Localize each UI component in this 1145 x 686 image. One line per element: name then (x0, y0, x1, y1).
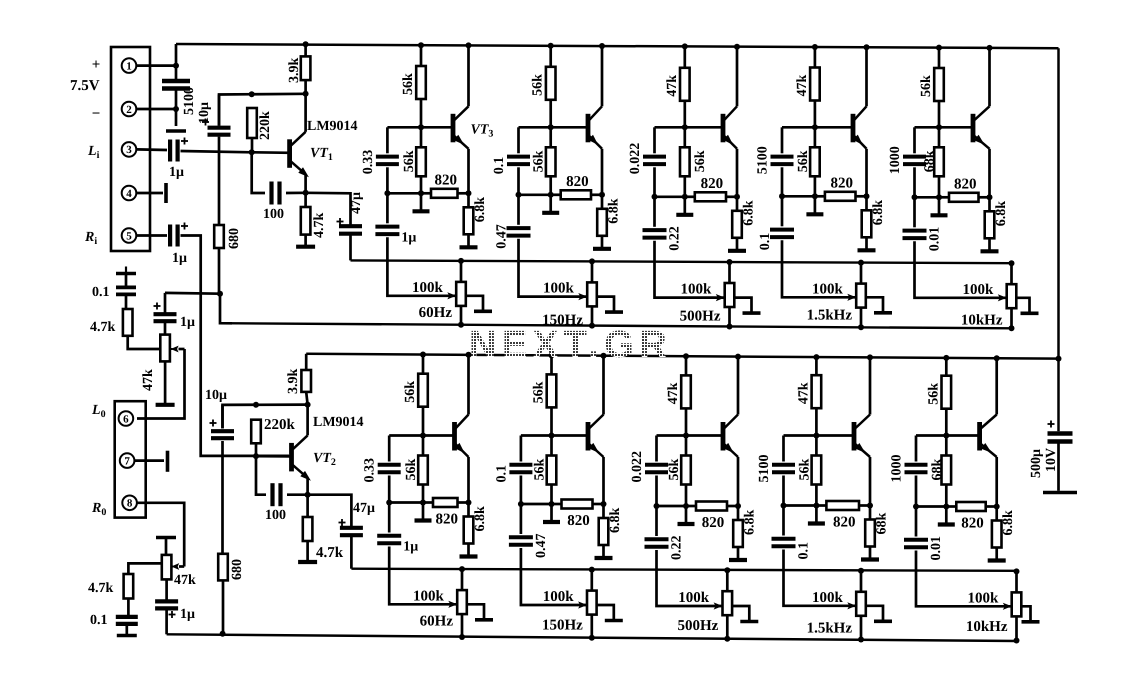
junction cap node 1.5kHz band (bottom) (781, 503, 787, 509)
svg-text:6.8k: 6.8k (473, 506, 488, 532)
wire 56k to junction 500Hz band (top) (683, 176, 686, 197)
label 100k 150Hz band (top) (543, 281, 575, 297)
svg-text:820: 820 (833, 515, 856, 531)
label 0.47 (495, 224, 510, 249)
wire 47k wiper down to terminal6 (137, 349, 185, 419)
junction ground node 1.5kHz band (top) (812, 193, 818, 199)
label 56k lower (404, 459, 419, 481)
ground 47k pot (156, 361, 175, 404)
wire junction to 820 1.5kHz band (top) (815, 195, 825, 198)
wire T to 0.1 (125, 274, 128, 288)
ground 6.8k 10kHz band (bottom) (988, 548, 1006, 561)
potentiometer 100k 10kHz band (bottom) (1012, 592, 1022, 616)
transistor 10kHz band (top) (973, 106, 990, 149)
junction ground node 500Hz band (bottom) (683, 503, 689, 509)
wire base node to 56k 150Hz band (top) (549, 127, 552, 147)
resistor 820 1.5kHz band (bottom) (826, 501, 859, 510)
base node wire 10kHz band (bottom) (916, 434, 980, 437)
wire rail to 56k upper 60Hz band (bottom) (422, 355, 425, 374)
wire base node to 56k 1.5kHz band (bottom) (815, 436, 818, 456)
wire rail to 56k upper 60Hz band (top) (420, 45, 423, 66)
svg-text:47k: 47k (665, 75, 680, 97)
plus mark (181, 223, 188, 230)
svg-text:0.47: 0.47 (534, 534, 549, 559)
label 56k lower (532, 150, 547, 172)
wiper ground 10kHz band (bottom) (1021, 606, 1039, 622)
wire emitter to junction 10kHz band (bottom) (995, 457, 998, 507)
wire base to 100 cap (252, 152, 265, 193)
wire 10u top to collector node (bottom) (223, 405, 308, 429)
resistor 3.9k (bottom) (301, 370, 311, 392)
wire cap 5100 to junction 1.5kHz band (top) (781, 167, 784, 196)
wire emitter to junction 1.5kHz band (top) (865, 149, 868, 197)
resistor 56k upper 60Hz band (bottom) (418, 374, 428, 407)
junction base node 60Hz band (bottom) (420, 433, 426, 439)
bus2 bottom (167, 634, 1017, 641)
capacitor 0.1 (bottom left) (116, 617, 138, 624)
resistor 820 150Hz band (bottom) (562, 500, 593, 509)
base node VT1 junction (249, 149, 255, 155)
label 56k lower (693, 150, 708, 172)
terminal 8 (122, 496, 137, 511)
svg-text:150Hz: 150Hz (542, 617, 583, 633)
label 100k 1.5kHz band (top) (812, 281, 844, 297)
wire node C down to bus2 (220, 294, 232, 324)
wiper arrow 150Hz band (bottom) (578, 601, 587, 608)
+V rail (top) (176, 44, 1059, 48)
label 820 (566, 174, 589, 190)
potentiometer 100k 1.5kHz band (bottom) (856, 592, 866, 616)
svg-text:1000: 1000 (888, 146, 903, 174)
node B junction (173, 106, 179, 112)
label 56k (926, 383, 941, 405)
label 0.1 (797, 542, 812, 560)
wire 47u to bus1 (bottom) (350, 536, 353, 569)
wire 1u to bus2 (bottom) (165, 608, 168, 634)
wire 820 to emitter 1.5kHz band (bottom) (859, 504, 870, 507)
junction pot bus1 10kHz band (top) (1009, 260, 1015, 266)
junction base node 150Hz band (top) (548, 124, 554, 130)
wire collector to rail 10kHz band (bottom) (995, 358, 998, 414)
svg-text:60Hz: 60Hz (420, 614, 454, 630)
resistor 68k lower 10kHz band (top) (934, 147, 944, 176)
resistor 56k upper 150Hz band (bottom) (547, 374, 557, 407)
label 500Hz (680, 309, 721, 325)
wire base node to cap 0.1 150Hz band (top) (517, 127, 520, 153)
svg-text:220k: 220k (258, 111, 273, 140)
resistor 820 10kHz band (top) (949, 193, 979, 202)
wire 56k to base node 10kHz band (bottom) (945, 409, 948, 436)
svg-text:0.22: 0.22 (670, 536, 685, 561)
svg-text:0.01: 0.01 (928, 227, 943, 252)
wire 47u to bus1 (349, 234, 352, 261)
wire pot to bus2 60Hz band (bottom) (461, 614, 464, 637)
label 6.8k (473, 506, 488, 532)
capacitor 0.22 500Hz band (bottom) (645, 539, 669, 547)
capacitor 0.01 10kHz band (top) (903, 231, 927, 239)
svg-text:56k: 56k (926, 383, 941, 405)
label 56k (532, 381, 547, 403)
label 10kHz (966, 619, 1008, 635)
resistor 47k upper 1.5kHz band (bottom) (812, 375, 822, 408)
resistor 6.8k emitter 60Hz band (bottom) (464, 517, 474, 544)
junction collector rail 500Hz band (top) (734, 44, 740, 50)
label 820 (701, 176, 724, 192)
wire junction to 820 10kHz band (bottom) (946, 505, 956, 508)
label 6.8k (607, 198, 622, 224)
svg-text:3: 3 (126, 144, 132, 156)
wire 100 cap to emitter (286, 191, 306, 194)
wire rail to 47k upper 1.5kHz band (bottom) (815, 357, 818, 375)
capacitor C 1u (R input) (170, 225, 178, 247)
label VT3 (471, 122, 494, 139)
wire 56k to junction 150Hz band (bottom) (550, 485, 553, 505)
junction collector rail 1.5kHz band (bottom) (867, 354, 873, 360)
label 5100 (757, 455, 772, 483)
terminal 7 (120, 453, 135, 468)
junction collector rail 150Hz band (bottom) (601, 353, 607, 359)
svg-text:NEXT.GR: NEXT.GR (469, 324, 672, 366)
plus mark (181, 138, 188, 145)
svg-text:1μ: 1μ (401, 230, 416, 245)
capacitor 5100 1.5kHz band (top) (771, 157, 794, 165)
bus2 top (input bus) (220, 323, 1012, 328)
wire junction to cap 0.1 1.5kHz band (top) (781, 196, 784, 226)
wire base node to 68k 10kHz band (top) (938, 127, 941, 147)
wire 10u top to collector node (219, 94, 306, 126)
wire rail to 56k upper 150Hz band (top) (549, 46, 552, 67)
wire 56k to junction 60Hz band (bottom) (422, 485, 425, 503)
wire junction to 6.8k 10kHz band (bottom) (995, 507, 998, 521)
svg-text:680: 680 (230, 559, 245, 580)
wire emitter to junction 500Hz band (top) (736, 149, 739, 197)
wire 4.7k to 0.1 (bottom) (127, 599, 130, 617)
base node wire 500Hz band (top) (655, 126, 724, 129)
capacitor 10u leads (218, 95, 221, 226)
resistor 3.9k (top) lead (304, 44, 307, 56)
junction emitter 60Hz band (bottom) (466, 500, 472, 506)
transistor 10kHz band (bottom) (980, 415, 997, 458)
open end bar below 0.1 (bottom) (117, 624, 137, 636)
wire emitter to junction 150Hz band (bottom) (602, 457, 605, 504)
resistor 680 (top) (214, 225, 224, 248)
resistor 6.8k emitter 150Hz band (top) (597, 209, 607, 236)
connector block J1 (terminals 1-5) (111, 47, 150, 251)
terminal4 end bar (164, 183, 168, 203)
svg-text:0.1: 0.1 (758, 233, 773, 251)
wire base node to 56k 60Hz band (bottom) (422, 436, 425, 456)
transistor 500Hz band (top) (723, 106, 737, 149)
wire rail to 47k upper 1.5kHz band (top) (814, 47, 817, 68)
wire cap 0.22 to wiper 500Hz band (bottom) (657, 550, 723, 606)
wire collector to rail 150Hz band (top) (601, 46, 604, 106)
resistor 56k lower 150Hz band (bottom) (547, 456, 557, 485)
wire 820 to emitter 60Hz band (bottom) (458, 501, 469, 504)
label 56k (403, 381, 418, 403)
wire 56k to base node 10kHz band (top) (938, 101, 941, 127)
capacitor 10u (top) (208, 128, 231, 135)
wire 680 to bus2 (bottom) (222, 580, 225, 633)
wire pot to bus2 500Hz band (bottom) (726, 615, 729, 639)
emitter node VT2 (305, 492, 311, 498)
label 820 (833, 515, 856, 531)
svg-text:56k: 56k (403, 381, 418, 403)
label 0.1 (758, 233, 773, 251)
label 820 (567, 513, 590, 529)
ground stub 60Hz band (top) (413, 193, 430, 211)
ground stub 1.5kHz band (top) (806, 196, 823, 214)
svg-text:5: 5 (126, 230, 132, 242)
wire 820 to emitter 500Hz band (top) (726, 195, 737, 198)
junction collector rail 500Hz band (bottom) (735, 354, 741, 360)
label 6.8k (1001, 510, 1016, 535)
svg-text:100k: 100k (681, 282, 713, 298)
ground 6.8k 60Hz band (top) (460, 234, 478, 247)
svg-text:0.1: 0.1 (92, 285, 110, 300)
junction collector rail 10kHz band (bottom) (994, 355, 1000, 361)
wire base node to cap 0.022 500Hz band (top) (653, 127, 656, 153)
label 4.7k (90, 320, 116, 335)
label 100k 1.5kHz band (bottom) (812, 590, 844, 606)
wire 820 to emitter 60Hz band (top) (458, 192, 469, 195)
wire base node to cap 0.33 60Hz band (top) (386, 127, 389, 153)
ground stub 60Hz band (bottom) (415, 503, 432, 521)
resistor 820 150Hz band (top) (561, 190, 591, 199)
junction wire 150Hz band (top) (519, 193, 551, 196)
label 0.022 (630, 451, 645, 483)
wire cap 0.1 to wiper 1.5kHz band (bottom) (784, 550, 857, 606)
wire emitter to 47u (306, 193, 351, 226)
capacitor 100 (bottom) (273, 483, 281, 506)
transistor VT1 (290, 132, 309, 177)
label 7.5V (70, 78, 100, 94)
svg-text:3.9k: 3.9k (287, 58, 302, 84)
label VT2 (313, 451, 336, 468)
wire 820 to emitter 1.5kHz band (top) (856, 195, 867, 198)
junction pot bus2 10kHz band (bottom) (1014, 638, 1020, 644)
wire 0.1 to 4.7k (125, 294, 128, 309)
svg-text:0.1: 0.1 (797, 542, 812, 560)
svg-text:10kHz: 10kHz (966, 619, 1008, 635)
capacitor 1u (top left) wire (164, 293, 167, 313)
potentiometer 100k 60Hz band (bottom) (457, 590, 467, 614)
wire junction to 820 500Hz band (bottom) (686, 505, 696, 508)
junction base node 10kHz band (bottom) (943, 433, 949, 439)
capacitor 0.1 1.5kHz band (top) (770, 230, 794, 238)
wire emitter to junction 1.5kHz band (bottom) (869, 457, 872, 506)
svg-text:0.022: 0.022 (630, 451, 645, 483)
wire cap 1&#956; to wiper 60Hz band (top) (387, 237, 456, 295)
base node wire 150Hz band (top) (519, 126, 589, 129)
label LM9014 (307, 119, 358, 134)
wire base node to cap 0.022 500Hz band (bottom) (655, 436, 658, 462)
resistor 56k upper 60Hz band (top) (416, 66, 426, 99)
junction cap node 150Hz band (top) (516, 192, 522, 198)
label 60Hz (419, 305, 453, 321)
junction rail 10kHz band (bottom) (943, 355, 949, 361)
wiper arrow 47k bottom (171, 563, 184, 570)
open end bar above 0.1 (116, 267, 136, 274)
wire 56k to base node 60Hz band (bottom) (422, 407, 425, 436)
svg-text:100k: 100k (543, 589, 575, 605)
wire base node to 56k 1.5kHz band (top) (814, 127, 817, 147)
junction base node 500Hz band (top) (682, 124, 688, 130)
resistor 820 1.5kHz band (top) (825, 192, 856, 201)
wire emitter to junction 500Hz band (bottom) (737, 457, 740, 506)
ground VT1 emitter (296, 235, 315, 247)
wire 47k to base node 500Hz band (top) (683, 101, 686, 128)
svg-text:4: 4 (126, 188, 132, 200)
resistor 6.8k emitter 1.5kHz band (top) (862, 210, 872, 237)
base node wire 60Hz band (top) (387, 126, 453, 129)
junction pot bus1 60Hz band (bottom) (459, 566, 465, 572)
label 0.33 (361, 150, 376, 175)
wire bus1 to pot 150Hz band (bottom) (590, 570, 593, 591)
wire VT1 collector (304, 94, 307, 132)
junction collector rail 10kHz band (top) (987, 45, 993, 51)
watermark NEXT.GR (469, 324, 672, 366)
label 500u (1029, 449, 1044, 478)
label 680 (227, 228, 242, 249)
label 0.22 (668, 226, 683, 251)
svg-text:6.8k: 6.8k (871, 200, 886, 226)
wire cap 0.022 to junction 500Hz band (top) (653, 167, 656, 197)
wire junction to 6.8k 60Hz band (bottom) (467, 503, 470, 517)
wire junction to 820 1.5kHz band (bottom) (816, 504, 826, 507)
resistor 56k upper 10kHz band (bottom) (942, 376, 952, 409)
junction rail 500Hz band (bottom) (683, 353, 689, 359)
wire junction to cap 0.22 500Hz band (top) (653, 197, 656, 227)
wire base node to cap 0.33 60Hz band (bottom) (388, 436, 391, 462)
junction mid rail to right border (1056, 356, 1062, 362)
svg-text:220k: 220k (264, 417, 296, 433)
svg-text:47k: 47k (174, 573, 196, 588)
wire collector to rail 60Hz band (bottom) (467, 355, 470, 415)
junction 680/bus2 (220, 631, 226, 637)
label 820 (702, 515, 725, 531)
svg-text:56k: 56k (797, 459, 812, 481)
svg-text:820: 820 (436, 512, 459, 528)
wire 100 cap to emitter (bottom) (287, 493, 308, 496)
svg-text:7.5V: 7.5V (70, 78, 100, 94)
wire junction to cap 1&#956; 60Hz band (bottom) (388, 503, 391, 533)
label 1000 (890, 455, 905, 483)
junction ground node 10kHz band (bottom) (943, 504, 949, 510)
svg-text:1.5kHz: 1.5kHz (807, 307, 853, 323)
resistor 220k (top) (247, 108, 257, 138)
svg-text:−: − (92, 106, 101, 122)
junction pot bus1 10kHz band (bottom) (1014, 568, 1020, 574)
resistor 47k upper 1.5kHz band (top) (810, 68, 820, 101)
capacitor C 1u (L input) (170, 140, 178, 162)
wire junction to 6.8k 10kHz band (top) (988, 197, 991, 211)
junction wire 60Hz band (top) (387, 192, 421, 195)
junction wire 1.5kHz band (bottom) (784, 504, 817, 507)
label 100k 60Hz band (bottom) (413, 588, 445, 604)
capacitor 47u (bottom) (340, 528, 363, 535)
wire junction to cap 0.22 500Hz band (bottom) (655, 506, 658, 536)
label 100 (265, 508, 286, 523)
svg-text:5100: 5100 (756, 146, 771, 174)
capacitor 5100 1.5kHz band (bottom) (772, 465, 795, 472)
junction wire 500Hz band (top) (655, 195, 685, 198)
junction rail 150Hz band (bottom) (549, 352, 555, 358)
node A junction (173, 63, 179, 69)
svg-text:6.8k: 6.8k (608, 508, 623, 534)
label 680 (230, 559, 245, 580)
wire rail to 56k upper 10kHz band (top) (938, 48, 941, 68)
mid rail drop to 3.9k (bottom) (305, 354, 308, 370)
svg-text:56k: 56k (532, 381, 547, 403)
junction emitter 1.5kHz band (bottom) (867, 503, 873, 509)
label + (supply) (92, 57, 101, 73)
plus mark (210, 420, 217, 427)
svg-text:68k: 68k (923, 150, 938, 172)
resistor 56k lower 1.5kHz band (bottom) (812, 456, 822, 485)
label 0.1 (92, 285, 110, 300)
svg-text:0.022: 0.022 (628, 143, 643, 175)
label 3.9k (287, 58, 302, 84)
junction rail 1.5kHz band (top) (812, 44, 818, 50)
wire junction to 820 150Hz band (top) (551, 193, 561, 196)
junction emitter 500Hz band (bottom) (735, 503, 741, 509)
wire base node to cap 5100 1.5kHz band (top) (781, 127, 784, 153)
label 100 (263, 207, 284, 222)
label 0.47 (534, 534, 549, 559)
svg-text:820: 820 (954, 176, 977, 192)
wire cap 0.01 to wiper 10kHz band (bottom) (916, 551, 1012, 607)
wire junction to cap 0.47 150Hz band (bottom) (520, 504, 523, 534)
svg-text:56k: 56k (401, 73, 416, 95)
wire 4.7k to 47k pot (128, 336, 161, 349)
svg-text:500μ: 500μ (1029, 449, 1044, 478)
svg-text:820: 820 (961, 516, 984, 532)
potentiometer 100k 150Hz band (top) (587, 282, 597, 306)
wire base node to cap 5100 1.5kHz band (bottom) (782, 436, 785, 462)
svg-text:2: 2 (126, 104, 132, 116)
wire pot to bus2 10kHz band (top) (1010, 308, 1013, 328)
junction 3.9k rail (303, 41, 309, 47)
label 56k (401, 73, 416, 95)
wire rail to 56k upper 10kHz band (bottom) (945, 358, 948, 376)
wire junction to cap 0.01 10kHz band (bottom) (915, 507, 918, 537)
resistor 56k upper 150Hz band (top) (546, 67, 556, 100)
wiper arrow 500Hz band (top) (716, 294, 725, 301)
junction cap node 60Hz band (top) (384, 190, 390, 196)
wire junction to 6.8k 60Hz band (top) (467, 193, 470, 207)
svg-text:+: + (92, 57, 101, 73)
wire pot to bus2 60Hz band (top) (460, 306, 463, 325)
potentiometer 100k 60Hz band (top) (456, 282, 466, 306)
label 1&#956; (403, 540, 418, 555)
svg-text:4.7k: 4.7k (316, 545, 344, 561)
wire base to 100 cap (bottom) (256, 456, 266, 495)
bus1 bottom (351, 569, 1016, 571)
svg-text:820: 820 (566, 174, 589, 190)
capacitor 1u (top left) (154, 314, 177, 321)
svg-text:4.7k: 4.7k (90, 320, 116, 335)
svg-text:100k: 100k (413, 588, 445, 604)
svg-text:1μ: 1μ (180, 315, 195, 330)
label 56k (919, 75, 934, 97)
junction pot bus1 60Hz band (top) (458, 258, 464, 264)
wiper arrow 10kHz band (top) (998, 294, 1007, 301)
capacitor 1000 10kHz band (bottom) (905, 465, 928, 472)
potentiometer 47k (bottom left) (162, 555, 172, 580)
ground stub 150Hz band (bottom) (543, 504, 560, 522)
capacitor 5100 leads (175, 66, 178, 126)
wire bus1 to pot 1.5kHz band (top) (860, 263, 863, 284)
